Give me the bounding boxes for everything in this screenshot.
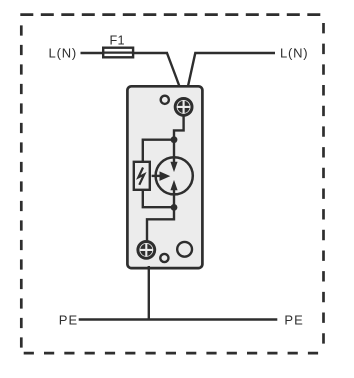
wire device to PE line [148, 266, 150, 320]
terminal screw bottom [138, 242, 155, 259]
svg-text:PE: PE [284, 313, 304, 328]
indicator circle bottom large [177, 242, 192, 257]
svg-text:F1: F1 [109, 34, 124, 48]
arrow trigger to spark gap [152, 171, 171, 181]
wire terminal top to node A [174, 116, 184, 140]
indicator circle bottom small [160, 254, 168, 262]
trigger element (surge arrester rectangle) [134, 162, 150, 190]
wire node A into spark gap (top electrode) [173, 140, 175, 163]
wire fuse to device top (left diagonal) [167, 53, 180, 88]
terminal screw top [175, 99, 192, 116]
bottom electrode arrow [170, 180, 177, 190]
node B (junction dot) [171, 204, 178, 211]
lightning bolt inside trigger element [138, 168, 144, 185]
svg-text:PE: PE [59, 313, 79, 328]
indicator circle top [161, 96, 169, 104]
wire spark gap bottom to node B [173, 189, 175, 208]
svg-text:L(N): L(N) [49, 45, 77, 60]
wire trigger element bottom loop to node B [143, 190, 174, 208]
wire node B to terminal bottom [147, 207, 174, 241]
enclosure boundary (dashed frame) [20, 15, 324, 354]
SPD module body [127, 86, 202, 268]
spark gap (gas discharge tube circle) [156, 157, 193, 194]
wire node A to trigger element (left loop top) [143, 140, 174, 162]
top electrode arrow [170, 162, 177, 172]
PE bus wire [79, 318, 278, 320]
wire L(N) left to fuse [81, 52, 169, 54]
svg-text:L(N): L(N) [280, 45, 308, 60]
wire device top to L(N) right (right diagonal + horizontal) [188, 53, 275, 88]
node A (junction dot) [171, 136, 178, 143]
fuse F1 [103, 48, 133, 58]
